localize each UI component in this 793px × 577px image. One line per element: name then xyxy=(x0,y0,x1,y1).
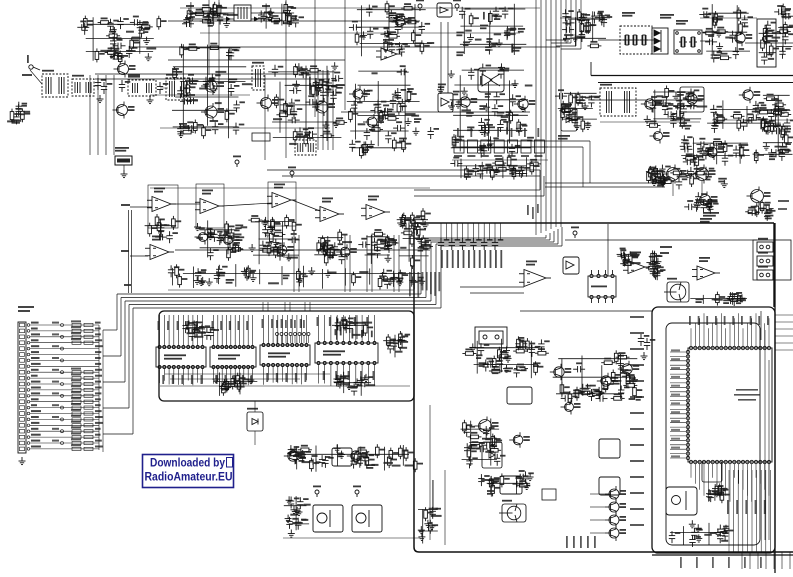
connector pin 21 xyxy=(20,441,25,445)
value label xyxy=(52,381,59,383)
CPU pin left 7 xyxy=(686,377,689,380)
capacitor C385 xyxy=(483,360,489,372)
value label xyxy=(366,464,375,469)
test point xyxy=(268,11,272,15)
IC pin wire up xyxy=(361,315,363,342)
value label xyxy=(52,357,59,359)
value label xyxy=(492,370,500,375)
value label xyxy=(242,375,244,384)
wire xyxy=(408,220,410,262)
capacitor C187 xyxy=(486,43,492,55)
wire xyxy=(703,31,748,33)
capacitor C391 xyxy=(588,389,594,401)
CPU pin wire down xyxy=(755,464,757,478)
resistor R279 xyxy=(421,235,425,249)
top supply rail xyxy=(180,7,540,9)
capacitor C195 xyxy=(510,94,516,106)
IC pin wire up xyxy=(374,315,376,342)
value label xyxy=(201,375,203,384)
resistor R295 xyxy=(628,251,632,265)
value label xyxy=(452,250,454,268)
connector bus vertical xyxy=(102,330,104,452)
pin label xyxy=(31,446,41,448)
IC pin wire up xyxy=(247,315,249,346)
bus wire vertical xyxy=(440,246,442,308)
CPU pin top 3 xyxy=(698,346,701,349)
chip resistor R348 xyxy=(84,430,93,433)
value label xyxy=(71,385,81,387)
capacitor C159 xyxy=(283,109,295,115)
value label xyxy=(511,128,513,137)
value label xyxy=(697,148,703,153)
resistor R339 xyxy=(614,350,618,364)
resistor R181 xyxy=(714,30,728,34)
value label xyxy=(95,392,101,394)
ground xyxy=(388,10,395,18)
value label xyxy=(494,33,501,35)
resistor R117 xyxy=(213,2,217,16)
long wire into bus xyxy=(371,235,373,292)
resistor R364 xyxy=(720,489,724,503)
wire bundle vertical xyxy=(97,75,99,155)
ground xyxy=(510,167,517,175)
bus wire horizontal long xyxy=(121,297,426,299)
wire xyxy=(212,8,214,25)
crystal X104 xyxy=(679,37,687,47)
ground xyxy=(764,126,771,134)
resistor R239 xyxy=(661,173,665,187)
value label xyxy=(525,85,533,87)
resistor R358 xyxy=(468,444,482,448)
ground xyxy=(194,277,201,285)
capacitor C253 xyxy=(766,124,778,130)
chip resistor R303 xyxy=(72,341,81,344)
ground xyxy=(241,267,248,275)
value label xyxy=(71,338,81,340)
wire xyxy=(487,83,489,151)
value label xyxy=(479,250,481,268)
wire xyxy=(652,104,696,106)
IC pin wire down xyxy=(197,369,199,383)
wire below border xyxy=(773,552,775,569)
value label xyxy=(671,367,680,369)
resistor R182 xyxy=(714,11,718,25)
value label xyxy=(52,428,59,430)
value label xyxy=(469,445,477,450)
resistor R323 xyxy=(404,447,408,461)
wire xyxy=(592,11,594,42)
crystal filter block XF502 xyxy=(674,30,702,54)
CPU pin wire left xyxy=(670,453,686,455)
connector row wire 14 xyxy=(30,401,99,403)
capacitor C221 xyxy=(699,11,711,17)
capacitor C324 xyxy=(402,223,414,229)
wire xyxy=(487,482,530,484)
wire xyxy=(731,292,733,304)
capacitor C201 xyxy=(487,136,493,148)
capacitor C112 xyxy=(130,19,142,25)
resistor R177 xyxy=(713,14,717,28)
connector row wire 13 xyxy=(30,395,99,397)
capacitor C306 xyxy=(262,225,268,237)
capacitor C132 xyxy=(177,86,183,98)
resistor R132 xyxy=(194,120,198,134)
transistor Q105 xyxy=(392,15,405,30)
resistor R198 xyxy=(665,86,669,100)
CPU pin wire left xyxy=(670,422,686,424)
value label xyxy=(71,415,81,417)
value label xyxy=(327,272,336,274)
wire xyxy=(254,431,256,445)
IC pin wire up xyxy=(336,315,338,342)
wire xyxy=(377,81,379,146)
wire xyxy=(356,315,358,339)
jumper pad 5 xyxy=(294,333,297,336)
wire bundle vertical xyxy=(317,70,319,150)
CPU pin wire down xyxy=(742,464,744,490)
capacitor C140 xyxy=(184,125,196,131)
driver box xyxy=(599,439,620,458)
value label xyxy=(703,212,719,217)
resistor R235 xyxy=(647,170,651,184)
capacitor C375 xyxy=(293,452,299,464)
right border vertical xyxy=(774,223,776,573)
wire xyxy=(347,101,420,103)
resistor R350 xyxy=(604,379,608,393)
resistor R334 xyxy=(513,349,527,353)
wire xyxy=(650,273,661,275)
value label xyxy=(225,383,234,385)
resistor R205 xyxy=(737,117,741,131)
resistor R107 xyxy=(118,51,122,65)
resistor R347 xyxy=(575,387,579,401)
value label xyxy=(456,52,464,57)
capacitor C212 xyxy=(562,9,568,21)
diode D1 xyxy=(226,17,231,22)
resistor R211 xyxy=(731,115,745,119)
value label xyxy=(741,316,743,325)
ground xyxy=(357,376,364,384)
wire xyxy=(393,271,395,287)
value label xyxy=(71,332,81,334)
resistor R206 xyxy=(777,113,791,117)
resistor R137 xyxy=(276,113,290,117)
IC IC202 (DIP) xyxy=(210,346,256,369)
long signal wire xyxy=(95,73,330,75)
resistor R118 xyxy=(199,8,213,12)
connector pin 16 xyxy=(20,412,25,416)
value label xyxy=(233,375,235,384)
wire xyxy=(481,162,483,180)
wire xyxy=(358,70,407,72)
wire xyxy=(272,121,340,123)
capacitor C323 xyxy=(414,222,420,234)
transistor Q125 xyxy=(336,244,350,260)
CPU pin top 1 xyxy=(689,346,692,349)
resistor R125 xyxy=(282,10,286,24)
value label xyxy=(630,492,644,494)
capacitor C340 xyxy=(654,268,660,280)
ground xyxy=(333,120,340,128)
capacitor C254 xyxy=(753,101,759,113)
value label xyxy=(337,453,343,458)
resistor R313 xyxy=(225,379,229,393)
value label xyxy=(276,320,278,328)
transistor Q109 xyxy=(257,95,272,112)
resistor R157 xyxy=(379,110,383,124)
test point xyxy=(189,17,193,21)
value label xyxy=(356,322,366,324)
wire xyxy=(476,341,478,374)
wire xyxy=(574,17,576,46)
chip resistor R339 xyxy=(84,377,93,380)
CPU pin wire up xyxy=(746,323,748,346)
capacitor C335 xyxy=(470,238,476,250)
capacitor C156 xyxy=(272,65,278,77)
capacitor C146 xyxy=(313,78,319,90)
wire xyxy=(259,238,299,240)
value label xyxy=(473,250,475,268)
wire xyxy=(490,419,492,466)
wire xyxy=(778,27,792,29)
bus wire jog xyxy=(561,48,581,50)
wire xyxy=(489,13,491,47)
capacitor C262 xyxy=(722,154,728,166)
ground xyxy=(503,365,510,373)
value label xyxy=(199,88,207,90)
bus wire vertical top xyxy=(580,0,582,49)
wire xyxy=(558,358,637,360)
test point xyxy=(61,406,64,409)
stub into logic section xyxy=(309,302,311,311)
value label xyxy=(673,119,683,121)
value label xyxy=(194,327,201,329)
bus wire into connector row xyxy=(103,381,125,383)
transistor Q111 xyxy=(514,96,528,112)
wire xyxy=(356,26,423,28)
ground xyxy=(768,149,775,157)
capacitor C348 xyxy=(191,321,197,333)
value label xyxy=(95,410,102,412)
bus wire vertical xyxy=(430,242,432,301)
ground xyxy=(247,376,254,384)
value label xyxy=(266,373,268,382)
value label xyxy=(52,416,59,418)
value label xyxy=(342,241,352,243)
value label xyxy=(712,122,720,127)
value label xyxy=(509,170,516,175)
capacitor C292 xyxy=(748,209,760,215)
resistor R114 xyxy=(200,19,214,23)
value label xyxy=(671,429,680,431)
value label xyxy=(631,253,638,255)
capacitor C154 xyxy=(331,75,343,81)
resistor R178 xyxy=(718,56,732,60)
value label xyxy=(371,331,373,338)
capacitor C138 xyxy=(228,48,234,60)
value label xyxy=(512,44,514,53)
resistor R327 xyxy=(424,507,428,521)
value label xyxy=(737,41,743,43)
transistor Q129 xyxy=(550,364,564,380)
CPU pin wire up xyxy=(729,323,731,346)
pin wire xyxy=(499,223,501,240)
wire xyxy=(327,236,329,260)
value label xyxy=(302,519,309,521)
wire xyxy=(463,8,525,10)
value label xyxy=(146,48,156,50)
capacitor C273 xyxy=(515,170,527,176)
capacitor C191 xyxy=(493,7,499,19)
connector row wire 1 xyxy=(30,324,99,326)
capacitor C293 xyxy=(764,209,770,221)
chip resistor R311 xyxy=(72,388,81,391)
capacitor C145 xyxy=(326,79,332,91)
connector pin 10 xyxy=(20,376,25,380)
capacitor C217 xyxy=(595,14,607,20)
value label xyxy=(660,252,669,254)
connector row wire 12 xyxy=(30,389,99,391)
CPU pin wire left xyxy=(670,378,686,380)
ground xyxy=(503,347,510,355)
CPU pin top 6 xyxy=(711,346,714,349)
resistor R234 xyxy=(652,169,656,183)
resistor R290 xyxy=(175,264,179,278)
capacitor C200 xyxy=(453,135,459,147)
bus wire into connector row xyxy=(103,329,117,331)
resistor R202 xyxy=(770,120,774,134)
wire xyxy=(357,115,416,117)
resistor R258 xyxy=(271,219,275,233)
value label xyxy=(671,402,680,404)
resistor R179 xyxy=(737,7,741,21)
capacitor C383 xyxy=(483,361,495,367)
value label xyxy=(587,536,589,548)
input bandpass coil T502 xyxy=(72,79,94,96)
value label xyxy=(789,25,793,27)
CPU pin wire down xyxy=(712,464,714,478)
bus wire xyxy=(553,231,555,242)
value label xyxy=(509,165,517,170)
value label xyxy=(95,434,101,436)
transistor Q116 xyxy=(703,144,717,160)
value label xyxy=(630,396,644,398)
value label xyxy=(677,91,685,96)
value label xyxy=(238,321,240,330)
IC pin wire up xyxy=(277,315,279,344)
value label xyxy=(95,422,103,424)
ground xyxy=(631,376,638,384)
value label xyxy=(198,332,206,334)
IC pin wire down xyxy=(374,365,376,386)
CPU pin left 17 xyxy=(686,421,689,424)
value label xyxy=(441,250,443,268)
value label xyxy=(407,88,414,93)
resistor R163 xyxy=(393,137,397,151)
wire xyxy=(199,229,237,231)
transistor Q118 xyxy=(663,165,680,184)
wire bundle vertical xyxy=(113,75,115,155)
value label xyxy=(656,95,663,97)
pin wire xyxy=(472,223,474,240)
ground xyxy=(354,378,361,386)
wire xyxy=(139,29,141,54)
wire below border xyxy=(765,552,767,569)
capacitor C392 xyxy=(618,386,624,398)
connector pin 19 xyxy=(20,429,25,433)
wire xyxy=(509,80,511,143)
capacitor C117 xyxy=(16,102,22,114)
ground xyxy=(498,63,505,71)
connector row wire 8 xyxy=(30,365,99,367)
wire xyxy=(653,91,694,93)
resistor R283 xyxy=(416,224,420,238)
wire xyxy=(314,254,341,256)
capacitor C337 xyxy=(492,238,498,250)
ground xyxy=(582,102,589,110)
signal wire to jacks xyxy=(565,239,757,241)
IC pin wire down xyxy=(306,367,308,381)
capacitor C263 xyxy=(681,135,687,147)
wire xyxy=(190,12,234,14)
wire xyxy=(305,66,307,132)
value label xyxy=(481,155,489,157)
capacitor C300 xyxy=(218,231,224,243)
IC pin wire up xyxy=(163,315,165,346)
logic section box xyxy=(159,311,414,401)
transistor Q103 xyxy=(114,61,129,78)
value label xyxy=(573,390,581,395)
capacitor C194 xyxy=(509,144,515,156)
capacitor C242 xyxy=(673,103,685,109)
resistor R180 xyxy=(703,31,717,35)
resistor R294 xyxy=(399,270,403,284)
value label xyxy=(480,76,482,85)
ground xyxy=(397,219,404,227)
wire xyxy=(739,143,741,164)
value label xyxy=(52,440,59,442)
resistor R106 xyxy=(98,21,112,25)
capacitor C282 xyxy=(648,177,660,183)
connector pin 3 xyxy=(20,335,25,339)
value label xyxy=(479,105,486,110)
value label xyxy=(630,412,644,414)
value label xyxy=(95,398,101,400)
value label xyxy=(405,113,415,115)
value label xyxy=(411,281,418,283)
capacitor C276 xyxy=(477,166,483,178)
jack J301 xyxy=(757,242,773,252)
CPU pin wire left xyxy=(670,391,686,393)
capacitor C313 xyxy=(325,252,337,258)
capacitor C338 xyxy=(617,253,629,259)
value label xyxy=(630,364,644,366)
value label xyxy=(660,14,674,19)
wire xyxy=(414,4,416,47)
value label xyxy=(715,316,717,325)
wire xyxy=(451,147,531,149)
resistor R320 xyxy=(310,458,314,472)
bus wire vertical xyxy=(420,238,422,294)
long vertical wire xyxy=(285,0,287,158)
wire xyxy=(370,235,372,264)
value label xyxy=(521,369,527,371)
resistor R255 xyxy=(227,247,231,261)
value label xyxy=(287,257,298,259)
value label xyxy=(558,135,570,140)
value label xyxy=(733,12,742,14)
capacitor C106 xyxy=(82,23,88,35)
